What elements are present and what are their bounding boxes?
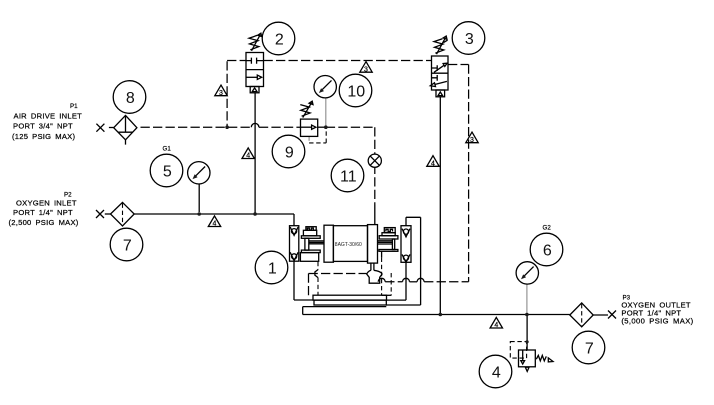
svg-text:P1: P1 [70,103,78,110]
svg-text:G2: G2 [543,225,552,232]
svg-text:(125 PSIG MAX): (125 PSIG MAX) [12,132,75,141]
svg-text:(2,500 PSIG MAX): (2,500 PSIG MAX) [9,218,79,227]
svg-text:G1: G1 [163,146,172,153]
svg-text:4: 4 [494,322,498,329]
svg-text:7: 7 [585,341,594,358]
svg-text:PORT 3/4" NPT: PORT 3/4" NPT [13,122,73,131]
svg-text:8AGT-30/60: 8AGT-30/60 [335,242,362,248]
svg-text:AIR DRIVE INLET: AIR DRIVE INLET [14,112,83,121]
svg-text:8: 8 [126,90,135,107]
svg-text:4: 4 [492,365,501,382]
svg-text:6: 6 [543,243,552,260]
svg-text:4: 4 [246,153,250,160]
svg-text:4: 4 [213,221,217,228]
svg-text:5: 5 [163,164,172,181]
svg-text:9: 9 [285,145,294,162]
svg-text:3: 3 [219,90,223,97]
svg-text:3: 3 [364,66,368,73]
svg-text:PORT 1/4" NPT: PORT 1/4" NPT [13,208,73,217]
svg-text:(5,000 PSIG MAX): (5,000 PSIG MAX) [621,316,693,325]
svg-text:3: 3 [465,31,474,48]
svg-text:3: 3 [470,137,474,144]
svg-text:4: 4 [431,161,435,168]
svg-text:7: 7 [123,238,132,255]
svg-text:10: 10 [347,84,365,101]
svg-text:11: 11 [340,169,357,186]
svg-text:P2: P2 [64,192,72,199]
svg-text:OXYGEN INLET: OXYGEN INLET [16,199,77,208]
svg-text:2: 2 [275,32,284,49]
svg-text:1: 1 [268,261,277,278]
